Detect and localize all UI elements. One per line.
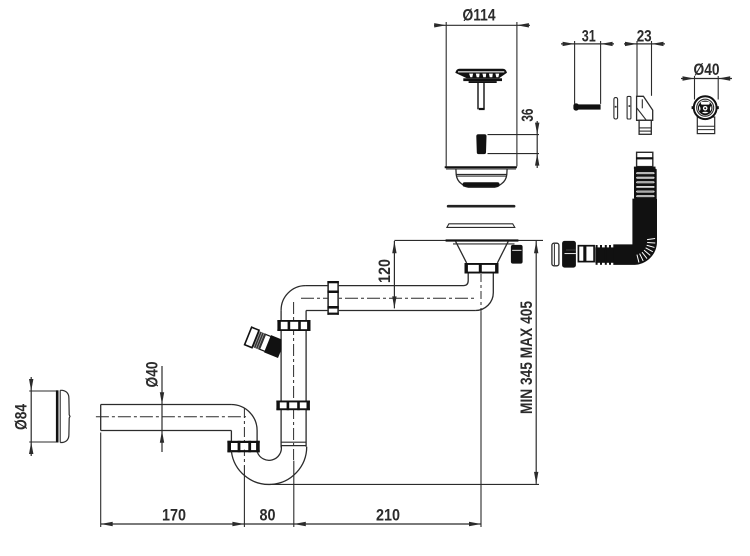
dimension Ø40 outlet pipe bbox=[144, 362, 165, 453]
dimension 36 bbox=[488, 109, 540, 168]
svg-text:80: 80 bbox=[260, 507, 276, 525]
hose end fitting (end view) bbox=[692, 96, 719, 133]
trap outlet leg bbox=[231, 431, 257, 442]
gasket (dark ring edge view) bbox=[447, 205, 516, 208]
extension line pipe end bbox=[100, 433, 102, 528]
hose ribbed fitting bbox=[578, 246, 594, 262]
drain body flange bbox=[394, 240, 543, 244]
svg-text:120: 120 bbox=[376, 259, 394, 283]
strainer flange bbox=[445, 167, 517, 169]
extension line drain center bbox=[480, 312, 482, 527]
drain tailpipe bbox=[463, 274, 493, 311]
vertical pipe (trap inlet leg) bbox=[281, 310, 306, 447]
centerline upper pipe bbox=[301, 297, 476, 299]
extension line trap inlet leg bbox=[293, 461, 295, 527]
dimension Ø114 bbox=[434, 7, 530, 167]
basket strainer plug bbox=[455, 69, 507, 110]
hose corrugated horizontal bbox=[595, 245, 613, 265]
hose body and bend bbox=[613, 199, 657, 265]
flat washer bbox=[627, 96, 631, 119]
gasket (light ring edge view) bbox=[447, 224, 515, 228]
hose bend corrugation marks bbox=[637, 238, 655, 262]
svg-text:210: 210 bbox=[376, 507, 400, 525]
centerline drain vertical bbox=[480, 274, 482, 312]
hose top fitting bbox=[634, 152, 656, 169]
upper horizontal pipe bbox=[281, 286, 475, 311]
svg-text:Ø40: Ø40 bbox=[144, 362, 162, 388]
dimension 120 bbox=[376, 241, 397, 308]
screw bbox=[573, 103, 600, 110]
nut on vertical pipe (lower) bbox=[276, 401, 310, 411]
hose nut (black) bbox=[562, 241, 576, 268]
dimension MIN 345 MAX 405 bbox=[518, 241, 538, 484]
centerline outlet pipe bbox=[96, 416, 246, 418]
svg-text:Ø84: Ø84 bbox=[13, 403, 31, 430]
svg-text:MIN 345 MAX 405: MIN 345 MAX 405 bbox=[518, 301, 536, 414]
dimension Ø84 dome cap bbox=[57, 390, 70, 442]
drain body funnel bbox=[456, 241, 509, 263]
outlet pipe horizontal bbox=[101, 405, 257, 431]
nut on horizontal pipe bbox=[327, 281, 338, 315]
dimension 170 bbox=[101, 507, 481, 527]
svg-text:23: 23 bbox=[637, 28, 652, 46]
svg-text:Ø114: Ø114 bbox=[463, 7, 497, 25]
trap bowl bbox=[231, 446, 306, 485]
drain plug (36mm) bbox=[476, 134, 486, 154]
dimension 31 bbox=[561, 28, 614, 104]
dimension Ø40 hose end bbox=[681, 61, 732, 100]
centerline vertical pipe bbox=[293, 302, 295, 460]
svg-text:36: 36 bbox=[519, 109, 537, 122]
svg-text:31: 31 bbox=[582, 28, 596, 46]
extension line trap outlet leg bbox=[243, 466, 245, 527]
bottom reference line bbox=[270, 483, 539, 485]
trap joint lines bbox=[281, 442, 306, 445]
nut on vertical pipe (upper) bbox=[277, 320, 310, 331]
centerline trap outlet leg bbox=[243, 408, 245, 466]
drain nut bbox=[465, 263, 499, 274]
svg-text:Ø40: Ø40 bbox=[694, 61, 720, 79]
nut on trap outlet leg bbox=[227, 441, 259, 453]
wave washer bbox=[614, 98, 618, 119]
dimension Ø84 bbox=[13, 377, 57, 456]
svg-text:170: 170 bbox=[162, 507, 186, 525]
hose corrugated vertical bbox=[634, 169, 657, 199]
strainer bowl bbox=[456, 169, 507, 187]
overflow elbow piece bbox=[637, 96, 653, 134]
dimension 210 bbox=[294, 507, 481, 527]
overflow port (black) bbox=[511, 245, 523, 264]
dimension 23 bbox=[624, 28, 665, 96]
hose washer bbox=[552, 243, 559, 266]
